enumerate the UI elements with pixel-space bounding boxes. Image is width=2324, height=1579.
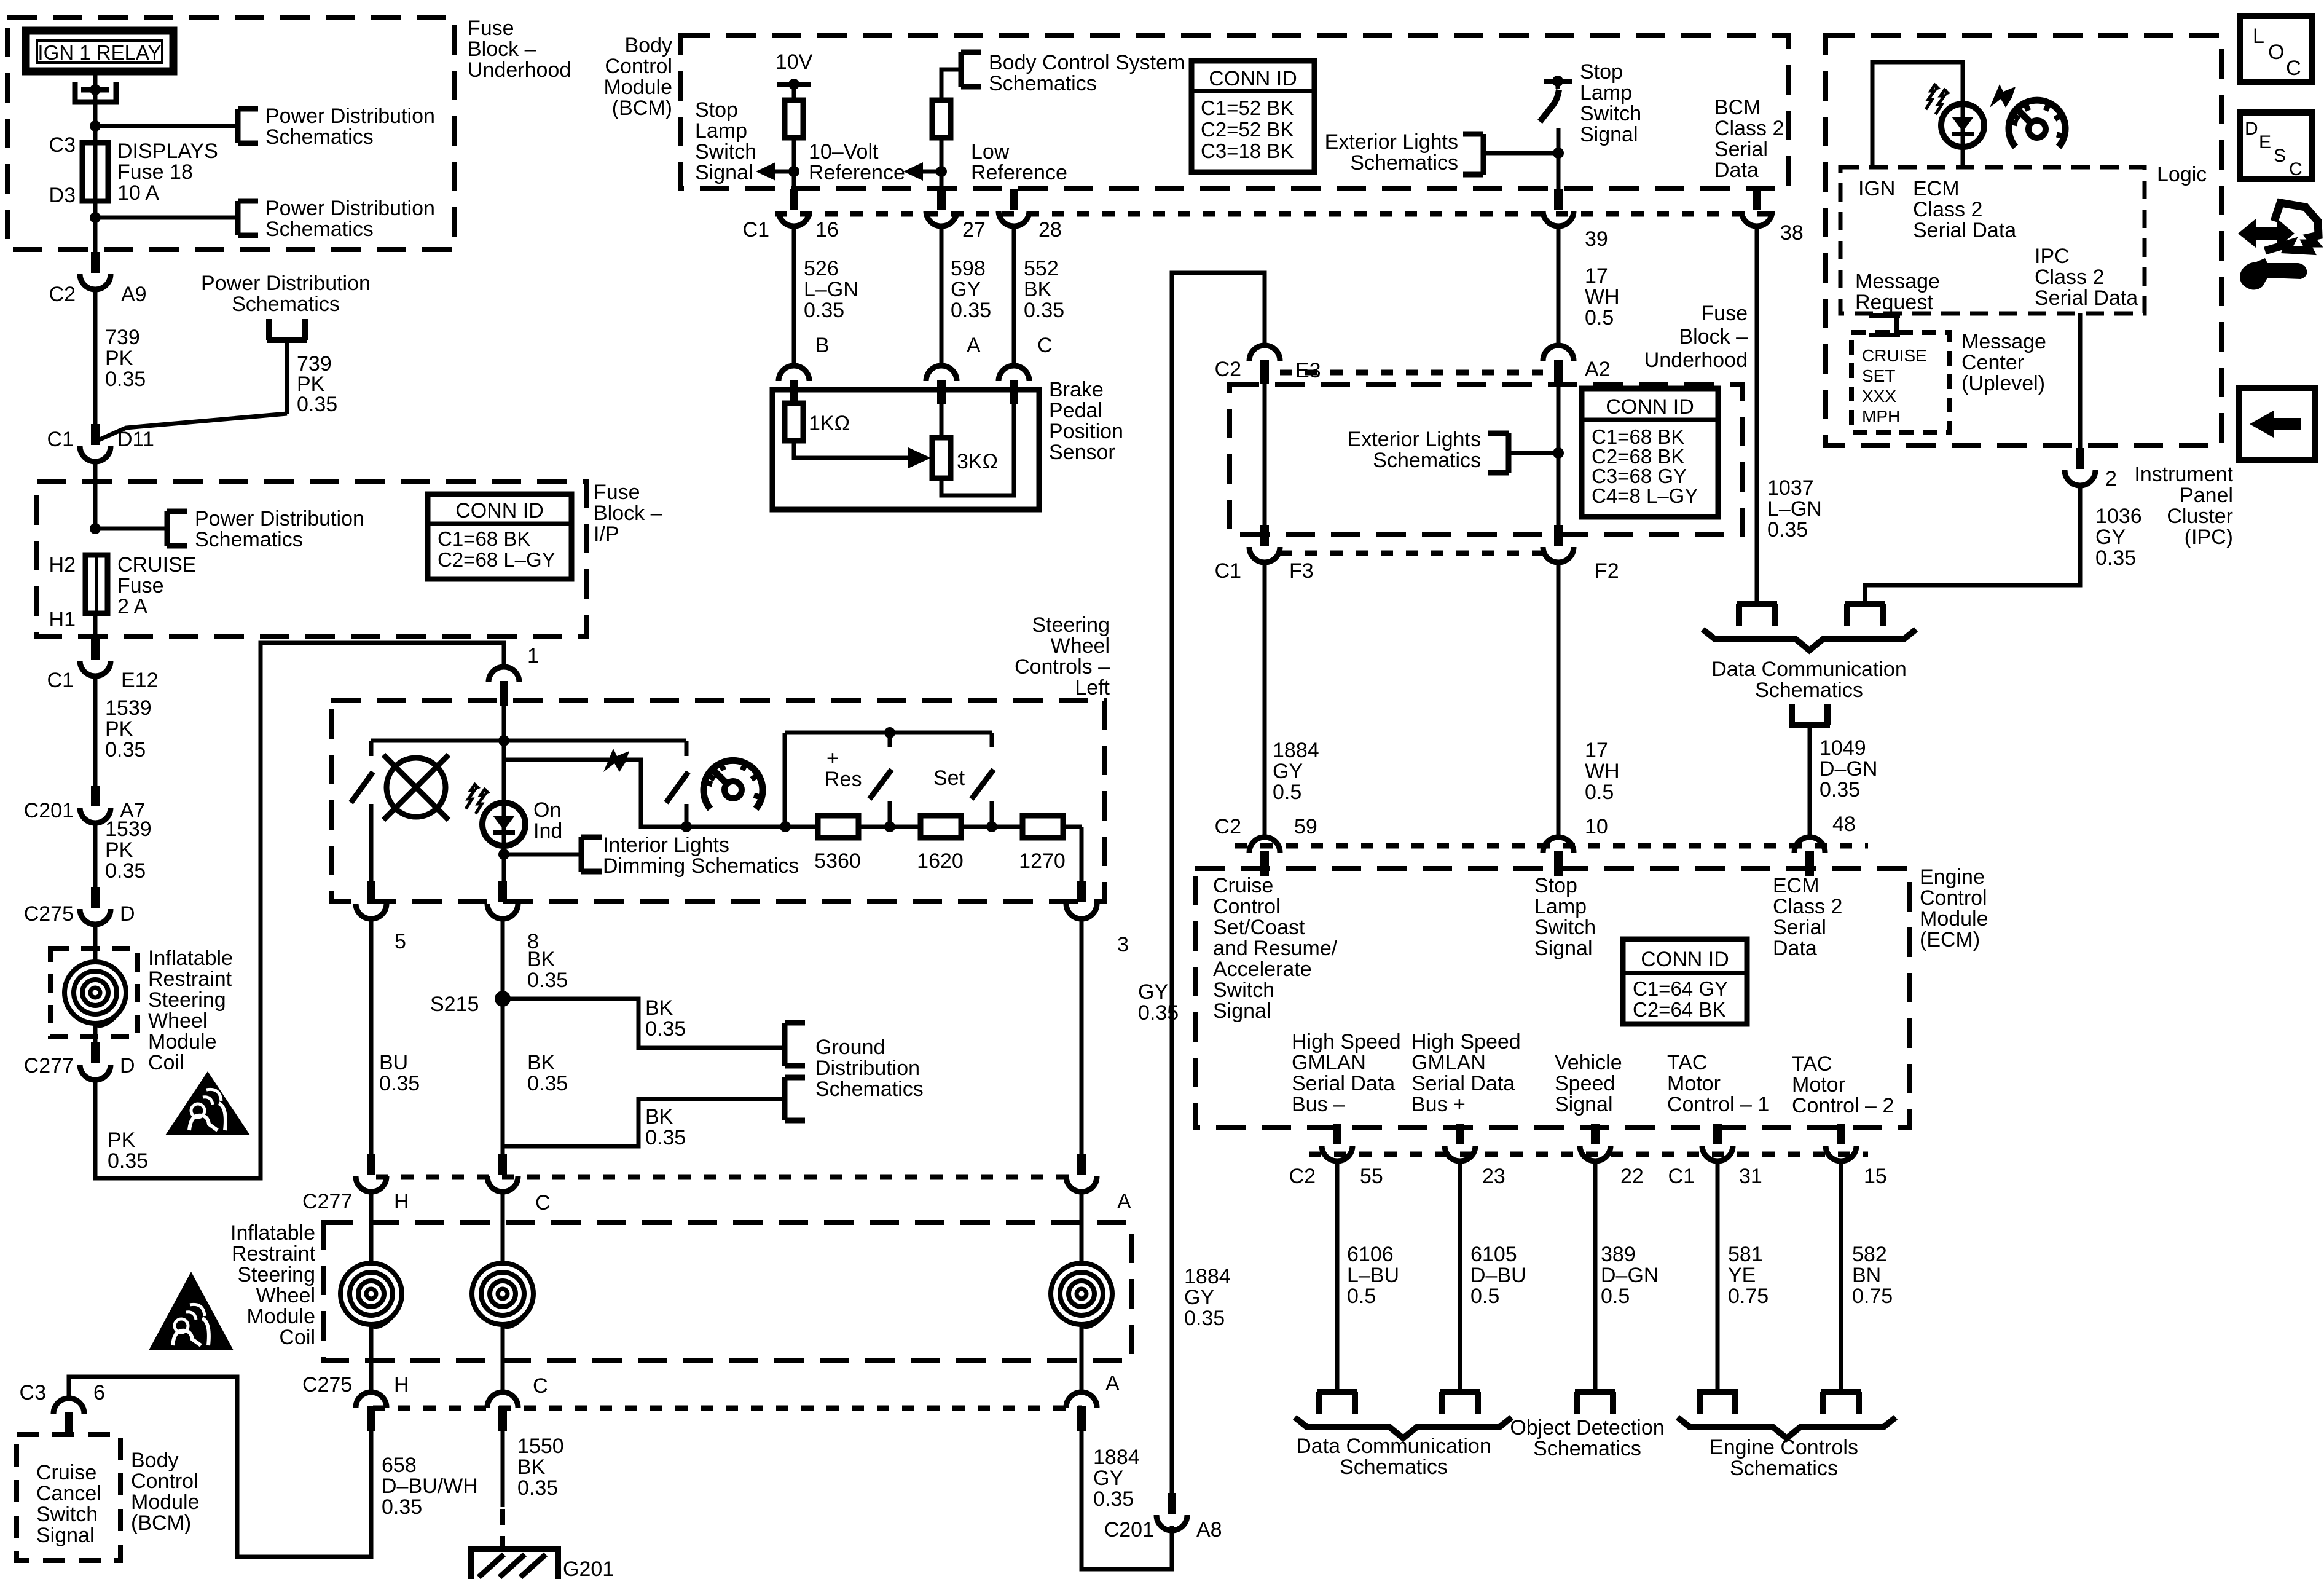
label B — [815, 334, 830, 357]
label IGN — [1858, 177, 1895, 200]
label object detection — [1510, 1416, 1664, 1460]
svg-text:Module: Module — [1920, 907, 1988, 931]
airbag triangle 1 — [165, 1071, 250, 1135]
svg-text:C275: C275 — [24, 902, 74, 926]
label data comm bottom — [1296, 1435, 1491, 1479]
label 6105 D-BU 0.5 — [1470, 1243, 1526, 1308]
svg-text:5: 5 — [395, 930, 406, 953]
svg-text:0.35: 0.35 — [951, 299, 991, 322]
wire H coil — [369, 1192, 374, 1262]
svg-text:C1: C1 — [47, 669, 74, 692]
svg-text:739: 739 — [105, 326, 140, 349]
svg-text:1884: 1884 — [1184, 1265, 1231, 1288]
wire D11 to fuse block IP — [93, 461, 98, 529]
wire relay to junction — [93, 75, 98, 126]
wire 389 — [1593, 1160, 1598, 1392]
svg-text:Reference: Reference — [971, 161, 1067, 184]
svg-text:Restraint: Restraint — [232, 1242, 316, 1266]
pot 3K — [932, 438, 951, 478]
label 1036 GY 0.35 — [2095, 505, 2142, 570]
label H1 — [49, 608, 76, 631]
svg-text:Module: Module — [246, 1305, 315, 1328]
label instrument panel cluster — [2134, 463, 2233, 549]
label Fuse Block Underhood — [468, 17, 571, 82]
label 389 D-GN 0.5 — [1601, 1243, 1659, 1308]
svg-text:GY: GY — [951, 278, 981, 301]
svg-text:C: C — [2289, 159, 2302, 179]
label BK 0.35 mid — [527, 1051, 568, 1095]
label Low Reference — [971, 140, 1067, 184]
svg-text:(IPC): (IPC) — [2185, 526, 2233, 549]
svg-text:C1=52 BK: C1=52 BK — [1201, 96, 1294, 119]
svg-text:2 A: 2 A — [117, 595, 147, 618]
svg-text:Body: Body — [625, 34, 673, 57]
fuse block underhood box — [7, 18, 455, 250]
label D c275 — [120, 902, 135, 926]
connector F3 — [1249, 525, 1280, 562]
label message request — [1855, 270, 1940, 314]
svg-text:GMLAN: GMLAN — [1292, 1051, 1366, 1074]
bracket body control system — [961, 52, 981, 87]
label data comm top — [1711, 658, 1906, 702]
arrow left 2 — [903, 162, 941, 181]
svg-text:BK: BK — [1024, 278, 1052, 301]
label C201 a8 — [1104, 1518, 1154, 1542]
svg-text:Restraint: Restraint — [148, 967, 232, 991]
svg-text:Cruise: Cruise — [1213, 874, 1273, 897]
svg-text:Engine Controls: Engine Controls — [1710, 1436, 1858, 1459]
msg request stub — [1869, 315, 1900, 335]
label C275 d — [24, 902, 74, 926]
svg-text:C2=68 L–GY: C2=68 L–GY — [438, 548, 555, 571]
resistor 5360 — [818, 816, 858, 838]
svg-text:Schematics: Schematics — [265, 218, 374, 241]
svg-text:1036: 1036 — [2095, 505, 2142, 528]
svg-text:Left: Left — [1075, 676, 1110, 699]
svg-text:Serial Data: Serial Data — [1411, 1072, 1515, 1095]
label 17 WH 0.5 b — [1585, 739, 1620, 804]
svg-text:1884: 1884 — [1093, 1446, 1140, 1469]
svg-text:Data Communication: Data Communication — [1296, 1435, 1491, 1458]
svg-text:Power Distribution: Power Distribution — [201, 272, 371, 295]
svg-text:Bus –: Bus – — [1292, 1093, 1345, 1116]
svg-text:31: 31 — [1739, 1165, 1762, 1188]
wire C coil b — [501, 1326, 505, 1392]
svg-text:Lamp: Lamp — [695, 119, 747, 143]
label C1 e12 — [47, 669, 74, 692]
label C1 16 — [743, 218, 769, 242]
svg-text:B: B — [815, 334, 830, 357]
svg-text:526: 526 — [804, 257, 839, 280]
dotted row C277 — [376, 1175, 1082, 1180]
svg-text:5360: 5360 — [814, 849, 861, 873]
svg-text:H2: H2 — [49, 553, 76, 577]
svg-text:Schematics: Schematics — [1340, 1455, 1448, 1479]
svg-text:1884: 1884 — [1273, 739, 1319, 762]
label 1884 GY 0.5 — [1273, 739, 1319, 804]
connector 2 — [2065, 448, 2095, 486]
wire 739 PK — [93, 289, 98, 427]
label C277 row — [302, 1190, 352, 1213]
pot arrow — [908, 447, 931, 468]
wire 6105 — [1458, 1160, 1462, 1392]
flash led — [466, 783, 490, 814]
connector C — [999, 366, 1029, 404]
relay contact — [75, 82, 116, 102]
svg-text:23: 23 — [1482, 1165, 1505, 1188]
svg-text:Exterior Lights: Exterior Lights — [1325, 130, 1458, 154]
connector 5 — [356, 881, 387, 919]
svg-text:Schematics: Schematics — [989, 72, 1097, 95]
svg-text:10V: 10V — [775, 50, 813, 74]
conn id box 1 — [428, 494, 571, 579]
label body control system schematics — [989, 51, 1185, 95]
wire BK branch 2 — [503, 1099, 783, 1146]
label E3 — [1295, 359, 1321, 382]
svg-text:L–BU: L–BU — [1347, 1264, 1399, 1287]
svg-text:SET: SET — [1862, 366, 1895, 385]
fuse CRUISE 2A — [85, 555, 108, 613]
svg-text:Fuse: Fuse — [117, 574, 164, 597]
label 28 — [1038, 218, 1062, 242]
junction dot ref2 — [936, 166, 947, 177]
switch set — [972, 733, 994, 827]
connector 8 — [487, 881, 518, 919]
wire cruise fuse down — [93, 613, 98, 639]
label 6 — [93, 1381, 105, 1404]
connector C275-C — [487, 1392, 518, 1431]
ground G201 — [471, 1549, 558, 1579]
label C bpp — [1037, 334, 1053, 357]
terminal 6105 — [1440, 1392, 1480, 1414]
connector C201-A7 — [80, 786, 111, 823]
svg-text:CRUISE: CRUISE — [117, 553, 196, 577]
svg-text:Serial: Serial — [1773, 916, 1826, 939]
resistor 1620 — [921, 816, 961, 838]
svg-text:3KΩ: 3KΩ — [957, 450, 998, 473]
wire A inside — [940, 390, 944, 439]
svg-text:O: O — [2268, 41, 2284, 64]
svg-text:Fuse 18: Fuse 18 — [117, 160, 193, 184]
label A c277 — [1117, 1190, 1131, 1213]
label power dist 2 — [265, 197, 435, 241]
svg-text:D–BU: D–BU — [1470, 1264, 1526, 1287]
label 1539 PK 0.35 a — [105, 696, 152, 762]
svg-text:552: 552 — [1024, 257, 1059, 280]
connector E3 — [1249, 345, 1280, 384]
svg-text:0.35: 0.35 — [527, 1072, 568, 1095]
label power dist 4 — [195, 507, 364, 551]
svg-text:XXX: XXX — [1862, 387, 1896, 406]
label 10 — [1585, 815, 1608, 838]
junction dot S215 — [495, 991, 511, 1007]
connector C275-A — [1066, 1392, 1097, 1431]
resistor 1270 — [1023, 816, 1063, 838]
connector 15 — [1826, 1124, 1856, 1161]
label 739 PK 0.35 — [105, 326, 146, 391]
label 48 — [1832, 813, 1856, 836]
connector 59 — [1249, 837, 1280, 876]
IGN 1 RELAY box — [26, 31, 173, 71]
wire 1037 — [1755, 226, 1759, 604]
svg-text:IGN 1 RELAY: IGN 1 RELAY — [37, 41, 161, 64]
terminal 582 — [1821, 1392, 1861, 1414]
lamp symbol — [383, 755, 449, 820]
switch master — [666, 741, 688, 827]
svg-text:(Uplevel): (Uplevel) — [1961, 372, 2045, 395]
fuse block IP box — [37, 482, 586, 636]
airbag coil C — [472, 1263, 533, 1326]
label D c277 — [120, 1054, 135, 1077]
svg-text:Coil: Coil — [279, 1326, 315, 1349]
resistor bcm2 — [932, 100, 951, 138]
label A2 — [1585, 358, 1611, 381]
connector 39 — [1543, 189, 1574, 226]
airbag coil A — [1051, 1263, 1112, 1326]
svg-text:582: 582 — [1852, 1243, 1887, 1266]
svg-text:48: 48 — [1832, 813, 1856, 836]
label C c277 — [535, 1191, 551, 1215]
label 526 L-GN 0.35 — [804, 257, 858, 322]
label BU 0.35 — [379, 1051, 420, 1095]
terminal 1036 — [1845, 604, 1885, 626]
svg-text:+: + — [826, 747, 839, 770]
svg-text:D3: D3 — [49, 184, 76, 207]
svg-text:BCM: BCM — [1714, 96, 1761, 119]
svg-text:GY: GY — [1273, 760, 1303, 783]
label H c277 — [394, 1190, 409, 1213]
label 3K — [957, 450, 998, 473]
svg-text:Engine: Engine — [1920, 865, 1985, 889]
label 22 — [1620, 1165, 1644, 1188]
label 3 — [1117, 933, 1129, 956]
svg-text:PK: PK — [108, 1128, 136, 1152]
svg-text:Dimming Schematics: Dimming Schematics — [603, 854, 799, 878]
svg-text:C2=52 BK: C2=52 BK — [1201, 118, 1294, 141]
connector 10 — [1543, 837, 1574, 876]
label engine control module — [1920, 865, 1988, 951]
svg-text:E: E — [2259, 132, 2271, 152]
wire ipc class2 — [2078, 313, 2083, 448]
junction dot pin1 — [498, 735, 509, 746]
label stop lamp switch signal top — [1580, 60, 1641, 146]
brace data comm top — [1703, 629, 1916, 650]
svg-text:D–GN: D–GN — [1820, 757, 1877, 781]
svg-text:Signal: Signal — [36, 1524, 95, 1547]
connector C277-C — [487, 1154, 518, 1192]
svg-text:Control – 2: Control – 2 — [1792, 1094, 1894, 1117]
label stop lamp switch signal ecm — [1534, 874, 1596, 960]
svg-text:0.35: 0.35 — [1024, 299, 1064, 322]
connector C275-D — [80, 887, 111, 924]
svg-text:Serial: Serial — [1714, 138, 1768, 161]
steering wheel controls box — [331, 701, 1105, 901]
svg-text:2: 2 — [2105, 467, 2117, 490]
svg-text:and Resume/: and Resume/ — [1213, 937, 1338, 960]
svg-text:IGN: IGN — [1858, 177, 1895, 200]
svg-text:10–Volt: 10–Volt — [809, 140, 879, 163]
svg-text:Schematics: Schematics — [1350, 151, 1458, 175]
junction dot r1 — [780, 821, 791, 832]
svg-text:Accelerate: Accelerate — [1213, 958, 1312, 981]
label inflatable coil 2 — [230, 1221, 316, 1349]
wire 526 — [792, 226, 796, 364]
bracket ground 2 — [785, 1077, 805, 1120]
svg-text:L–GN: L–GN — [1767, 497, 1822, 521]
label 5360 — [814, 849, 861, 873]
svg-text:0.5: 0.5 — [1273, 781, 1301, 804]
svg-text:H: H — [394, 1190, 409, 1213]
svg-text:BK: BK — [527, 1051, 555, 1074]
svg-text:0.5: 0.5 — [1347, 1285, 1376, 1308]
connector F2 — [1543, 525, 1574, 562]
svg-text:3: 3 — [1117, 933, 1129, 956]
svg-text:Module: Module — [131, 1490, 200, 1514]
label C201 a7 — [24, 799, 74, 822]
label F3 — [1289, 559, 1314, 583]
label 1049 D-GN 0.35 — [1820, 736, 1877, 801]
label C275 row — [302, 1373, 352, 1396]
label power dist 1 — [265, 104, 435, 149]
svg-text:G201: G201 — [563, 1557, 614, 1579]
label G201 — [563, 1557, 614, 1579]
wire 1884 GY A — [1082, 1431, 1172, 1569]
svg-text:Pedal: Pedal — [1049, 399, 1102, 422]
svg-text:17: 17 — [1585, 264, 1608, 288]
terminal power dist 3 — [267, 319, 307, 340]
res set rail — [785, 733, 992, 827]
wire PK 0.35 — [95, 643, 504, 1178]
label On Ind — [533, 798, 562, 843]
switch res — [870, 733, 892, 827]
svg-text:6105: 6105 — [1470, 1243, 1517, 1266]
connector 27 — [926, 189, 957, 226]
label fuse block underhood 2 — [1644, 302, 1748, 372]
svg-text:Cancel: Cancel — [36, 1482, 101, 1505]
svg-text:H1: H1 — [49, 608, 76, 631]
resistor bus — [641, 825, 1082, 829]
svg-text:C: C — [1037, 334, 1053, 357]
connector C1-16 — [779, 189, 809, 226]
terminal 1037 — [1737, 604, 1777, 626]
connector A — [926, 366, 957, 404]
svg-text:C3: C3 — [20, 1381, 46, 1404]
svg-text:Schematics: Schematics — [1533, 1437, 1641, 1460]
svg-text:Signal: Signal — [1213, 999, 1271, 1023]
label message center uplevel — [1961, 330, 2046, 395]
conn id box ecm — [1623, 939, 1747, 1024]
bracket power dist 1 — [238, 109, 258, 143]
label BCM class 2 serial data — [1714, 96, 1784, 182]
junction dot 3 — [90, 523, 101, 534]
wire 17 WH 05 b — [1557, 562, 1561, 836]
junction dot stoplamp — [1553, 148, 1564, 159]
svg-text:D–BU/WH: D–BU/WH — [382, 1475, 478, 1498]
label BK 0.35 br1 — [645, 996, 686, 1041]
wire fuse to box edge — [93, 201, 98, 252]
svg-text:D–GN: D–GN — [1601, 1264, 1659, 1287]
svg-text:0.35: 0.35 — [645, 1017, 686, 1041]
label E12 — [121, 669, 159, 692]
svg-text:Distribution: Distribution — [815, 1057, 920, 1080]
svg-text:15: 15 — [1864, 1165, 1887, 1188]
label cruise set xxx mph — [1862, 346, 1927, 426]
wire 598 — [940, 226, 944, 364]
wire E3 F3 — [1263, 384, 1267, 525]
svg-text:CONN ID: CONN ID — [455, 499, 544, 522]
wire 582 — [1839, 1160, 1843, 1392]
svg-text:Schematics: Schematics — [195, 528, 303, 551]
svg-text:C2: C2 — [1215, 358, 1241, 381]
wire 658 bottom — [69, 1377, 371, 1557]
connector C201-A8 — [1156, 1493, 1187, 1530]
label 23 — [1482, 1165, 1505, 1188]
wire stop lamp down — [1557, 128, 1561, 191]
svg-text:Block –: Block – — [1679, 325, 1748, 348]
svg-text:A: A — [1105, 1372, 1120, 1395]
wire LED feed — [504, 741, 686, 827]
svg-text:YE: YE — [1728, 1264, 1756, 1287]
terminal 6106 — [1317, 1392, 1357, 1414]
svg-text:Ground: Ground — [815, 1036, 885, 1059]
label S215 — [430, 993, 479, 1016]
label F2 — [1595, 559, 1619, 583]
label 1539 PK 0.35 b — [105, 817, 152, 883]
label 5 — [395, 930, 406, 953]
label BCM bottom — [131, 1449, 200, 1535]
wire pin3 drop — [1080, 827, 1084, 881]
wire 1049 — [1808, 725, 1812, 836]
connector B — [779, 366, 809, 404]
LOC box — [2240, 16, 2312, 82]
label C277 d — [24, 1054, 74, 1077]
label C2 59 — [1215, 815, 1241, 838]
svg-text:I/P: I/P — [594, 522, 619, 546]
svg-text:CRUISE: CRUISE — [1862, 346, 1927, 365]
label BK 0.35 br2 — [645, 1105, 686, 1149]
svg-text:Control: Control — [131, 1470, 198, 1493]
connector C277-A — [1066, 1154, 1097, 1192]
svg-text:Set: Set — [933, 766, 965, 790]
black arrow 2 — [603, 749, 629, 772]
svg-text:1049: 1049 — [1820, 736, 1866, 760]
svg-text:0.35: 0.35 — [527, 969, 568, 992]
coil box 1 — [50, 948, 138, 1037]
label A9 — [121, 283, 147, 306]
connector C277-H — [356, 1154, 387, 1192]
svg-text:1550: 1550 — [517, 1435, 564, 1458]
connector 31 — [1702, 1124, 1733, 1161]
svg-text:10: 10 — [1585, 815, 1608, 838]
svg-text:581: 581 — [1728, 1243, 1763, 1266]
label 1270 — [1019, 849, 1066, 873]
svg-text:S215: S215 — [430, 993, 479, 1016]
svg-text:Message: Message — [1855, 270, 1940, 293]
svg-text:Exterior Lights: Exterior Lights — [1348, 428, 1481, 451]
svg-text:ECM: ECM — [1773, 874, 1820, 897]
svg-text:Fuse: Fuse — [1701, 302, 1748, 325]
svg-text:Controls –: Controls – — [1015, 655, 1110, 679]
svg-text:Reference: Reference — [809, 161, 905, 184]
svg-text:Switch: Switch — [1534, 916, 1596, 939]
label ECM class2 serial data — [1913, 177, 2016, 242]
wire C coil — [501, 1192, 505, 1262]
svg-text:C1: C1 — [743, 218, 769, 242]
IPC box — [1826, 36, 2221, 446]
label 10V — [775, 50, 813, 74]
svg-text:F3: F3 — [1289, 559, 1314, 583]
svg-text:C275: C275 — [302, 1373, 352, 1396]
